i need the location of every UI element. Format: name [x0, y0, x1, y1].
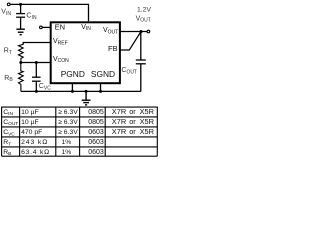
capacitor COUT	[136, 32, 146, 92]
resistor RT	[19, 44, 24, 62]
svg-text:X7RorX5R: X7RorX5R	[112, 117, 154, 126]
node VOUT terminal	[147, 30, 150, 33]
table row CIN	[3, 107, 154, 117]
resistor RB	[19, 63, 24, 92]
capacitor CVC	[32, 63, 41, 92]
svg-text:X7RorX5R: X7RorX5R	[112, 127, 154, 136]
svg-text:≥ 6.3V: ≥ 6.3V	[58, 109, 78, 116]
node RT/RB junction	[19, 61, 22, 64]
op-amp U1 regulator box	[51, 22, 120, 83]
svg-text:1.2V: 1.2V	[137, 7, 151, 14]
svg-text:1%: 1%	[62, 139, 72, 146]
svg-text:0805: 0805	[88, 119, 104, 126]
node CVC bottom junction	[35, 90, 38, 93]
svg-text:PGND: PGND	[61, 69, 85, 79]
wire: FB pin	[120, 32, 141, 51]
node EN terminal	[40, 26, 43, 29]
wire: VOUT pin	[120, 31, 147, 33]
svg-text:≥ 6.3V: ≥ 6.3V	[58, 119, 78, 126]
svg-text:≥ 6.3V: ≥ 6.3V	[58, 129, 78, 136]
capacitor CIN	[16, 4, 25, 29]
ground (main)	[82, 91, 91, 105]
svg-text:FB: FB	[108, 44, 118, 53]
table row RB	[3, 149, 104, 157]
wire: VIN top rail	[10, 4, 88, 21]
svg-text:0603: 0603	[88, 139, 104, 146]
node junction CIN	[19, 3, 22, 6]
svg-text:10 µF: 10 µF	[21, 119, 39, 126]
svg-text:470 pF: 470 pF	[21, 129, 42, 136]
node ground stub junction	[85, 90, 88, 93]
svg-text:63.4 kΩ: 63.4 kΩ	[21, 149, 50, 156]
wire: SGND pin	[100, 84, 102, 92]
svg-text:0603: 0603	[88, 149, 104, 156]
node VOUT junction	[140, 30, 143, 33]
svg-text:1%: 1%	[62, 149, 72, 156]
wire: PGND pin	[71, 84, 73, 92]
wire: EN pin	[42, 26, 50, 28]
svg-text:243 kΩ: 243 kΩ	[21, 139, 48, 146]
svg-text:SGND: SGND	[91, 69, 115, 79]
wire: ground rail	[21, 90, 141, 92]
svg-text:0603: 0603	[88, 129, 104, 136]
svg-text:0805: 0805	[88, 109, 104, 116]
wire: VREF to RT	[23, 43, 51, 45]
node CVC top junction	[35, 61, 38, 64]
table row CVC	[3, 127, 154, 137]
node PGND junction	[71, 90, 74, 93]
node VIN input terminal	[7, 3, 10, 6]
svg-text:10 µF: 10 µF	[21, 109, 39, 116]
wire: VCON	[21, 62, 51, 64]
table row RT	[3, 139, 104, 147]
svg-text:EN: EN	[55, 23, 65, 32]
node SGND junction	[99, 90, 102, 93]
table row COUT	[3, 117, 154, 127]
svg-text:X7RorX5R: X7RorX5R	[112, 107, 154, 116]
ground (CIN)	[16, 29, 25, 35]
table grid	[2, 107, 158, 157]
